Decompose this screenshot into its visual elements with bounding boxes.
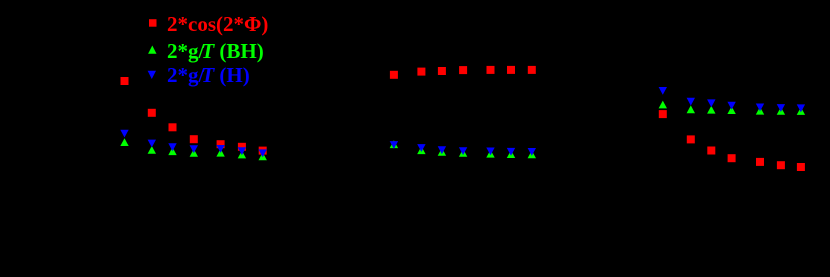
right panel green up-triangle point 5 (756, 107, 764, 115)
right panel blue down-triangle point 5 (756, 104, 764, 112)
legend marker blue down-triangle (148, 71, 156, 79)
left panel red square point 4 (190, 135, 198, 143)
right panel blue down-triangle point 3 (707, 99, 715, 107)
right panel red square point 1 (659, 110, 667, 118)
middle panel blue down-triangle point 1 (390, 141, 398, 149)
middle panel green up-triangle point 3 (438, 148, 446, 156)
left panel blue down-triangle point 3 (168, 143, 176, 151)
middle panel red square point 1 (390, 71, 398, 79)
right panel red square point 5 (756, 158, 764, 166)
left panel red square point 5 (217, 140, 225, 148)
left panel red square point 2 (148, 109, 156, 117)
right panel red square point 2 (687, 135, 695, 143)
left panel blue down-triangle point 7 (259, 149, 267, 157)
left panel green up-triangle point 4 (190, 149, 198, 157)
right panel blue down-triangle point 6 (777, 104, 785, 112)
middle panel red square point 5 (487, 66, 495, 74)
right panel green up-triangle point 1 (659, 101, 667, 109)
legend marker red square (149, 19, 157, 27)
left panel red square point 1 (121, 77, 129, 85)
left panel red square point 3 (169, 123, 177, 131)
middle panel blue down-triangle point 5 (486, 148, 494, 156)
middle panel green up-triangle point 1 (390, 140, 398, 148)
right panel green up-triangle point 4 (727, 106, 735, 114)
middle panel green up-triangle point 5 (486, 150, 494, 158)
right panel red square point 4 (728, 154, 736, 162)
middle panel green up-triangle point 7 (528, 150, 536, 158)
left panel green up-triangle point 7 (259, 152, 267, 160)
right panel blue down-triangle point 1 (659, 87, 667, 95)
left panel green up-triangle point 2 (148, 146, 156, 154)
middle panel red square point 6 (507, 66, 515, 74)
right panel blue down-triangle point 7 (797, 104, 805, 112)
right panel blue down-triangle point 2 (687, 98, 695, 106)
right panel green up-triangle point 7 (797, 107, 805, 115)
middle panel red square point 7 (528, 66, 536, 74)
middle panel blue down-triangle point 2 (417, 144, 425, 152)
legend text: 2*cos(2*Phi) (167, 12, 268, 37)
left panel red square point 6 (238, 143, 246, 151)
left panel blue down-triangle point 5 (216, 145, 224, 153)
middle panel blue down-triangle point 7 (528, 148, 536, 156)
right panel green up-triangle point 3 (707, 106, 715, 114)
left panel green up-triangle point 1 (120, 138, 128, 146)
left panel green up-triangle point 5 (216, 149, 224, 157)
right panel green up-triangle point 6 (777, 107, 785, 115)
right panel red square point 7 (797, 163, 805, 171)
middle panel green up-triangle point 4 (459, 149, 467, 157)
middle panel red square point 4 (459, 66, 467, 74)
left panel green up-triangle point 3 (168, 147, 176, 155)
left panel red square point 7 (259, 147, 267, 155)
right panel green up-triangle point 2 (687, 105, 695, 113)
legend text: 2*g/T (H) (167, 63, 250, 88)
left panel blue down-triangle point 4 (190, 145, 198, 153)
left panel blue down-triangle point 1 (120, 130, 128, 138)
middle panel blue down-triangle point 3 (438, 146, 446, 154)
middle panel red square point 2 (417, 68, 425, 76)
left panel blue down-triangle point 6 (238, 147, 246, 155)
left panel green up-triangle point 6 (238, 151, 246, 159)
middle panel blue down-triangle point 6 (507, 148, 515, 156)
middle panel green up-triangle point 6 (507, 150, 515, 158)
left panel blue down-triangle point 2 (148, 140, 156, 148)
legend marker green up-triangle (148, 46, 156, 54)
middle panel red square point 3 (438, 67, 446, 75)
legend text: 2*g/T (BH) (167, 39, 264, 64)
right panel red square point 6 (777, 161, 785, 169)
middle panel green up-triangle point 2 (417, 146, 425, 154)
right panel red square point 3 (707, 147, 715, 155)
middle panel blue down-triangle point 4 (459, 147, 467, 155)
right panel blue down-triangle point 4 (727, 102, 735, 110)
